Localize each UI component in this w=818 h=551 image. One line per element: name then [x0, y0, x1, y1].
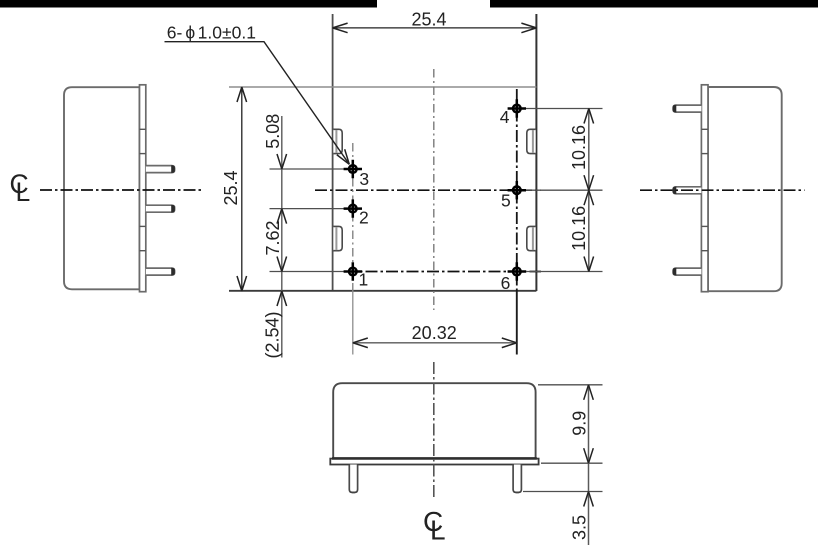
svg-text:25.4: 25.4 [221, 170, 241, 205]
right view pin row6 tip cap [673, 268, 677, 276]
right view centerline [640, 189, 805, 191]
svg-text:L: L [430, 515, 446, 546]
extension line pin4 row [521, 108, 603, 110]
front view pin left [349, 465, 357, 493]
right view pin row4 tip cap [673, 105, 677, 113]
right view flange [701, 85, 708, 292]
top border bar right [490, 0, 818, 8]
pin 1 [344, 262, 362, 280]
front view pin right [513, 465, 521, 493]
notch left upper [333, 129, 342, 153]
pin column centerline 1-2-3 [352, 143, 354, 290]
centerline symbol left [10, 169, 31, 207]
extension line pin6 column below body (for 20.32) [516, 291, 518, 355]
dimension 9.9 / 3.5: line [588, 385, 590, 545]
right view body [708, 87, 782, 291]
svg-text:3.5: 3.5 [569, 515, 589, 540]
right view pin row5 [673, 187, 701, 194]
svg-text:6-ϕ1.0±0.1: 6-ϕ1.0±0.1 [167, 23, 256, 43]
svg-text:4: 4 [500, 107, 510, 127]
horizontal centerline through pins 1-6 [345, 271, 541, 273]
pin 5 [508, 181, 526, 199]
dimension 25.4 top: line [333, 27, 537, 29]
horizontal centerline through pin 5 [315, 189, 541, 191]
left view body [64, 87, 140, 289]
leader line [165, 42, 350, 165]
svg-text:7.62: 7.62 [263, 220, 283, 255]
pin 6 [508, 262, 526, 280]
right view pin row6 [673, 268, 701, 275]
flange tick marks [140, 128, 146, 130]
left view flange [140, 85, 146, 292]
top border bar left [0, 0, 377, 8]
left view pin row1 [146, 268, 175, 275]
left view centerline [40, 189, 201, 191]
right view pin row4 [673, 105, 701, 112]
leader arrowhead [337, 149, 353, 167]
right view pin row5 tip cap [673, 187, 677, 195]
svg-text:5.08: 5.08 [263, 114, 283, 149]
extension line pin6 row [521, 271, 603, 273]
svg-text:5: 5 [501, 191, 511, 211]
extension line pin1 column below body (for 20.32) [352, 290, 354, 355]
front view pin left tip cap [349, 489, 358, 493]
svg-text:10.16: 10.16 [569, 125, 589, 170]
svg-text:9.9: 9.9 [569, 411, 589, 436]
svg-text:3: 3 [359, 169, 369, 189]
pin 2 [344, 199, 362, 217]
front view centerline [433, 362, 435, 500]
front view body [333, 383, 535, 458]
left view pin row2 [146, 205, 175, 212]
body left edge + extension [332, 14, 334, 291]
notch right lower [527, 226, 536, 250]
svg-text:2: 2 [359, 208, 369, 228]
svg-text:1: 1 [359, 270, 369, 290]
extension line flange bottom [541, 462, 603, 464]
vertical centerline of top view (gray) [433, 69, 435, 310]
notch right upper [527, 129, 536, 153]
flange tick marks [701, 128, 708, 130]
extension line pin2 row [270, 208, 350, 210]
dimension 25.4 left: line [241, 87, 243, 291]
front view pin right tip cap [513, 489, 522, 493]
pin column centerline 4-5-6 [516, 89, 518, 291]
left view pin row3 tip cap [171, 165, 175, 173]
svg-text:20.32: 20.32 [412, 323, 457, 343]
svg-text:10.16: 10.16 [569, 206, 589, 251]
extension line pin3 row [270, 168, 350, 170]
pin 3 [344, 160, 362, 178]
dimension 10.16 x2 right: line [588, 109, 590, 272]
left view pin row2 tip cap [171, 205, 175, 213]
extension line pin1 row [270, 271, 350, 273]
centerline symbol bottom [423, 506, 446, 546]
left view pin row1 tip cap [171, 268, 175, 276]
body bottom edge + left extension [229, 290, 536, 292]
dimension 20.32 bottom: line [353, 342, 517, 344]
svg-text:(2.54): (2.54) [263, 311, 283, 358]
svg-text:L: L [16, 177, 31, 207]
body right edge + extension [535, 14, 537, 291]
svg-text:25.4: 25.4 [411, 10, 446, 30]
svg-text:6: 6 [501, 273, 511, 293]
left view pin row3 [146, 166, 175, 173]
pin 4 [508, 99, 526, 117]
dimension stack 5.08 / 7.62 / (2.54): line [281, 116, 283, 358]
extension line pin bottom [523, 491, 603, 493]
front view body bottom edge (thick) [332, 457, 537, 460]
body top edge + left extension [229, 86, 536, 88]
extension line body top [538, 384, 603, 386]
extension line pin5 row [521, 189, 603, 191]
front view base flange [330, 459, 538, 465]
notch left lower [333, 226, 342, 250]
